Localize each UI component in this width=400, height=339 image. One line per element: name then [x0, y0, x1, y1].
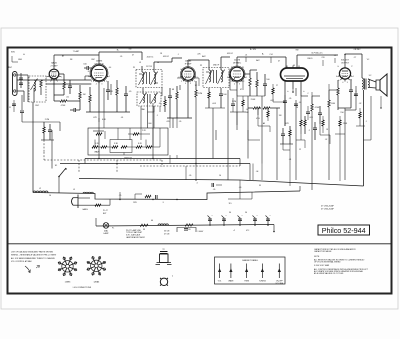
- resistor R24: [339, 120, 341, 126]
- wire: [188, 59, 209, 61]
- junction: [65, 168, 66, 169]
- wire: [95, 218, 97, 226]
- wire: [11, 56, 13, 62]
- resistor R2: [63, 82, 65, 89]
- svg-text:1: 1: [197, 77, 198, 79]
- svg-text:3: 3: [239, 84, 240, 86]
- wire: [104, 224, 108, 228]
- wire: [345, 53, 362, 55]
- wire: [292, 81, 294, 89]
- wire: [70, 109, 74, 111]
- resistor R20: [311, 104, 313, 111]
- svg-text:.05: .05: [334, 55, 337, 57]
- capacitor: [294, 104, 298, 106]
- wire: [208, 216, 211, 219]
- wire: [284, 81, 286, 95]
- wire: [249, 86, 251, 96]
- wire: [338, 107, 351, 109]
- wire: [250, 69, 257, 71]
- wire: [134, 194, 136, 200]
- wire: [98, 118, 100, 122]
- capacitor: [20, 111, 24, 113]
- wire: [314, 122, 316, 128]
- wire B+ riser: [363, 90, 365, 186]
- trimmer arrow: [206, 70, 213, 85]
- svg-text:C8: C8: [160, 53, 162, 55]
- svg-text:GND: GND: [18, 59, 23, 61]
- wire: [176, 155, 178, 159]
- wire: [339, 126, 341, 134]
- wire: [312, 95, 320, 97]
- svg-text:6AQ6: 6AQ6: [51, 62, 57, 65]
- resistor R11: [195, 90, 197, 97]
- svg-text:.1: .1: [365, 121, 367, 123]
- wire divider: [8, 243, 392, 245]
- oscillator coil box: [29, 76, 46, 102]
- svg-text:115: 115: [228, 203, 231, 205]
- capacitor C27: [212, 183, 214, 187]
- resistor on L2: [145, 195, 151, 197]
- wire: [172, 118, 174, 128]
- trimmer arrow: [31, 79, 38, 91]
- wire: [176, 99, 178, 118]
- wire: [227, 90, 229, 130]
- wire: [116, 160, 118, 172]
- wire: [238, 216, 241, 219]
- wire: [73, 197, 78, 199]
- wire: [285, 63, 287, 68]
- svg-text:5: 5: [181, 81, 182, 83]
- wire: [264, 74, 266, 84]
- junction: [254, 224, 256, 226]
- svg-text:2: 2: [351, 80, 352, 82]
- svg-text:4: 4: [96, 84, 97, 86]
- wire: [127, 146, 136, 148]
- wire: [300, 126, 302, 134]
- capacitor: [253, 219, 257, 221]
- wire: [169, 155, 171, 164]
- wire: [329, 89, 338, 91]
- svg-text:470: 470: [166, 121, 169, 123]
- wire: [242, 106, 244, 112]
- wire AVC dashed: [140, 165, 240, 167]
- tube V4 12AT6 detector: [228, 66, 245, 83]
- wire: [169, 88, 171, 96]
- resistor R28: [359, 112, 361, 118]
- wire: [248, 107, 253, 109]
- wire: [380, 96, 382, 108]
- choke 2: [83, 192, 93, 193]
- wire: [270, 57, 272, 63]
- svg-text:SWITCH: SWITCH: [124, 158, 132, 160]
- svg-text:CAPACITOR VALUE: CAPACITOR VALUE: [314, 250, 332, 253]
- wire: [230, 264, 232, 279]
- capacitor: [208, 219, 212, 221]
- pilot lamp: [103, 223, 109, 229]
- svg-text:SW: SW: [296, 50, 299, 52]
- wire: [43, 140, 45, 152]
- wire: [283, 149, 290, 151]
- wire: [149, 94, 151, 103]
- wire: [296, 139, 305, 141]
- wire: [161, 87, 163, 96]
- wire: [117, 128, 119, 140]
- Philco 52-944 label: [318, 225, 370, 235]
- svg-text:LIST OF DIAL AND KNOB ASSY PAR: LIST OF DIAL AND KNOB ASSY PARTS SHOWN: [11, 251, 54, 254]
- wire: [135, 193, 142, 195]
- IF transformer Z2: [203, 68, 229, 88]
- wire: [314, 130, 316, 140]
- tube V5 50L6 output: [338, 68, 353, 82]
- wire: [364, 79, 366, 90]
- svg-text:GANG: GANG: [82, 208, 88, 211]
- wire: [86, 111, 130, 113]
- wire: [359, 118, 361, 126]
- svg-text:3: 3: [190, 83, 191, 85]
- wire: [256, 87, 258, 96]
- wire: [284, 95, 286, 101]
- wire: [98, 146, 101, 148]
- wire: [222, 216, 225, 219]
- svg-text:B+ 90V: B+ 90V: [250, 49, 257, 51]
- wire: [129, 128, 131, 140]
- wire: [266, 216, 269, 219]
- wire: [292, 66, 294, 69]
- wire: [164, 106, 166, 112]
- wire: [228, 198, 252, 200]
- svg-text:2.2M: 2.2M: [232, 101, 237, 103]
- resistor R13: [208, 92, 210, 98]
- wire: [273, 225, 275, 232]
- resistor Re: [136, 146, 142, 148]
- svg-text:LUG CONNECTIONS: LUG CONNECTIONS: [73, 287, 92, 289]
- wire: [232, 98, 234, 104]
- wire: [195, 97, 197, 166]
- capacitor: [48, 130, 52, 132]
- junction: [98, 158, 99, 159]
- svg-text:.02: .02: [325, 139, 328, 141]
- svg-text:50: 50: [245, 212, 247, 214]
- capacitor: [156, 195, 158, 199]
- wire: [220, 57, 222, 64]
- tube socket view 2: [87, 256, 106, 275]
- wire: [247, 130, 249, 140]
- wire: [335, 133, 345, 135]
- svg-text:455 KC: 455 KC: [163, 56, 170, 58]
- resistor R5: [89, 95, 91, 102]
- svg-text:12BE6: 12BE6: [65, 282, 71, 284]
- wire osc wire: [46, 83, 91, 85]
- svg-text:470K: 470K: [315, 107, 320, 109]
- wire: [185, 166, 187, 180]
- svg-text:1M: 1M: [279, 115, 282, 117]
- wire: [208, 64, 210, 70]
- wire: [176, 118, 178, 128]
- svg-text:5: 5: [230, 81, 231, 83]
- svg-text:6: 6: [336, 76, 337, 78]
- svg-text:600: 600: [149, 123, 152, 125]
- wire: [311, 111, 313, 190]
- wire: [43, 122, 45, 127]
- wire: [282, 144, 284, 150]
- wire: [149, 72, 151, 84]
- wire: [356, 125, 365, 127]
- svg-text:PAD: PAD: [141, 108, 145, 111]
- wire: [153, 66, 155, 72]
- tube socket view 1: [58, 257, 77, 276]
- svg-text:Philco 52-944: Philco 52-944: [322, 226, 366, 235]
- wire: [236, 112, 238, 125]
- wire: [304, 126, 306, 134]
- wire: [289, 136, 291, 144]
- wire: [21, 113, 23, 122]
- wire: [179, 85, 181, 90]
- wire: [27, 75, 29, 102]
- wire: [195, 81, 197, 90]
- svg-text:47 CM4-4CAP: 47 CM4-4CAP: [321, 205, 335, 208]
- trimmer arrow: [140, 93, 147, 105]
- svg-text:LAMP: LAMP: [103, 232, 109, 235]
- svg-text:10M: 10M: [331, 103, 335, 105]
- wire: [298, 66, 300, 69]
- wire: [282, 128, 284, 134]
- wire: [272, 94, 274, 102]
- junction: [116, 163, 117, 164]
- svg-text:.05: .05: [179, 121, 182, 123]
- wire: [59, 73, 64, 75]
- trimmer arrow: [139, 72, 146, 86]
- svg-text:6: 6: [88, 76, 89, 78]
- wire: [328, 107, 330, 180]
- wire: [236, 57, 238, 67]
- wire: [344, 54, 346, 68]
- svg-text:2ND IF: 2ND IF: [213, 65, 220, 67]
- wire: [63, 89, 65, 95]
- resistor R1: [40, 80, 42, 87]
- T2 primary: [362, 78, 363, 89]
- wire: [169, 98, 171, 118]
- wire: [364, 139, 372, 141]
- wire: [69, 88, 71, 94]
- wire: [300, 96, 302, 120]
- svg-text:SW1: SW1: [11, 52, 15, 54]
- resistor R17: [267, 111, 269, 117]
- wire: [300, 134, 302, 140]
- svg-text:250K: 250K: [251, 99, 256, 101]
- resistor R3: [60, 100, 67, 102]
- svg-text:2.2M: 2.2M: [198, 93, 203, 95]
- svg-text:ON REC: ON REC: [354, 49, 362, 51]
- wire: [248, 139, 260, 141]
- wire: [300, 81, 302, 96]
- wire Z1 sec down: [147, 103, 149, 128]
- wire: [23, 91, 25, 102]
- wire: [242, 78, 244, 90]
- resistor: [263, 107, 270, 109]
- wire: [329, 135, 331, 144]
- border frame: [8, 48, 392, 294]
- wire: [258, 125, 270, 127]
- wire: [212, 125, 214, 159]
- svg-text:27: 27: [276, 85, 278, 87]
- wire: [239, 218, 241, 226]
- svg-text:.05: .05: [213, 189, 216, 191]
- capacitor: [354, 94, 358, 96]
- wire: [223, 218, 225, 226]
- T2 secondary: [368, 79, 369, 87]
- svg-text:47 CM: 47 CM: [164, 234, 170, 236]
- capacitor: [313, 128, 317, 130]
- capacitor: [219, 94, 223, 96]
- svg-text:ALL VOLTAGES MEASURED TUBES TO: ALL VOLTAGES MEASURED TUBES TO CHASSIS: [11, 257, 55, 260]
- svg-text:.05: .05: [120, 56, 123, 58]
- output transformer detail: [160, 252, 168, 254]
- svg-text:2: 2: [243, 81, 244, 83]
- svg-text:4: 4: [342, 82, 343, 84]
- wire: [89, 67, 92, 69]
- plug socket view: [160, 278, 167, 285]
- svg-text:L5: L5: [73, 189, 75, 191]
- svg-text:2: 2: [57, 81, 58, 83]
- wire: [261, 164, 263, 181]
- wire: [229, 74, 231, 90]
- wire: [219, 264, 221, 279]
- junction: [239, 224, 241, 226]
- wire: [33, 88, 35, 102]
- svg-text:NOTE: NOTE: [314, 256, 320, 258]
- junction: [267, 224, 269, 226]
- wire: [216, 70, 218, 83]
- trimmer arrow: [218, 70, 225, 85]
- wire: [140, 106, 142, 128]
- capacitor: [222, 219, 226, 221]
- trimmer arrow: [151, 72, 158, 86]
- wire: [257, 108, 259, 115]
- wire: [269, 126, 271, 132]
- wire: [125, 96, 127, 112]
- wire: [261, 264, 263, 279]
- wire AF drop: [295, 100, 297, 180]
- wire det out drop: [276, 108, 278, 180]
- svg-text:L3: L3: [139, 62, 141, 64]
- capacitor: [168, 96, 172, 98]
- capacitor: [124, 94, 128, 96]
- wire: [84, 159, 86, 164]
- wire: [209, 218, 211, 226]
- pointer squiggle: [25, 266, 30, 273]
- resistor Rb: [101, 146, 107, 148]
- wire: [140, 128, 142, 140]
- wire: [320, 134, 330, 136]
- svg-text:47: 47: [240, 89, 242, 91]
- wire: [76, 109, 80, 111]
- wire: [256, 72, 258, 80]
- resistor Rg: [96, 133, 102, 135]
- svg-text:12BA6: 12BA6: [93, 281, 99, 284]
- svg-text:+2: +2: [233, 230, 235, 232]
- band switch assembly box: [88, 128, 168, 155]
- wire: [355, 86, 357, 110]
- svg-text:WAVE: WAVE: [94, 151, 100, 154]
- svg-text:L2: L2: [39, 188, 41, 190]
- wire: [85, 75, 92, 77]
- svg-text:OUTPUT: OUTPUT: [341, 63, 350, 65]
- capacitor: [106, 90, 110, 92]
- wire bus 163: [60, 163, 250, 165]
- wire: [107, 146, 112, 148]
- svg-text:4: 4: [46, 76, 47, 78]
- svg-text:AT A GIVEN VALUES OF CYCLES: AT A GIVEN VALUES OF CYCLES: [314, 272, 344, 275]
- wire V3 down: [187, 80, 189, 118]
- wire: [220, 88, 222, 94]
- wire: [297, 54, 338, 56]
- wire: [237, 95, 265, 97]
- wire: [285, 57, 287, 63]
- wire: [119, 192, 121, 200]
- junction: [58, 176, 60, 178]
- wire: [232, 106, 234, 112]
- svg-text:1: 1: [353, 76, 354, 78]
- resistor Rc: [112, 146, 118, 148]
- svg-text:12AT6: 12AT6: [234, 59, 241, 62]
- resistor R15: [256, 80, 258, 87]
- svg-text:OSC: OSC: [35, 105, 40, 107]
- wire: [20, 73, 22, 88]
- wire: [296, 55, 298, 63]
- wire: [152, 128, 154, 147]
- wire: [107, 81, 109, 90]
- svg-text:4: 4: [196, 183, 197, 185]
- svg-text:47: 47: [132, 55, 134, 57]
- svg-text:.1: .1: [177, 54, 179, 56]
- wire: [365, 79, 367, 90]
- svg-text:D1: D1: [242, 67, 244, 69]
- wire: [220, 64, 222, 70]
- wire: [172, 57, 182, 59]
- wire: [205, 107, 225, 109]
- svg-text:C20: C20: [321, 57, 324, 59]
- wire: [139, 133, 150, 135]
- svg-text:220K: 220K: [343, 123, 348, 125]
- wire: [93, 130, 104, 132]
- resistor: [253, 107, 260, 109]
- svg-text:LAMP BRACKET ASSY: LAMP BRACKET ASSY: [126, 236, 146, 239]
- svg-text:455 KC: 455 KC: [147, 57, 154, 59]
- svg-text:4: 4: [185, 83, 186, 85]
- svg-text:2: 2: [194, 81, 195, 83]
- wire: [78, 197, 90, 199]
- svg-text:14: 14: [49, 195, 51, 197]
- tube V3 12BA6 IF amp: [180, 67, 196, 83]
- resistor R4: [79, 92, 81, 99]
- svg-text:TUNING: TUNING: [259, 281, 266, 283]
- svg-text:1: 1: [61, 76, 62, 78]
- wire: [230, 89, 237, 91]
- resistor R27: [95, 204, 101, 206]
- svg-text:117V AC-DC: 117V AC-DC: [311, 52, 323, 55]
- wire: [319, 106, 321, 113]
- wire: [43, 133, 45, 140]
- capacitor: [283, 101, 287, 103]
- wire: [304, 140, 306, 148]
- svg-text:6: 6: [227, 77, 228, 79]
- wire: [123, 153, 125, 156]
- svg-text:3: 3: [347, 82, 348, 84]
- resistor R12b: [164, 100, 166, 106]
- wire V2 to bus: [98, 112, 100, 159]
- resistor Rf: [146, 146, 152, 148]
- wire: [215, 130, 217, 140]
